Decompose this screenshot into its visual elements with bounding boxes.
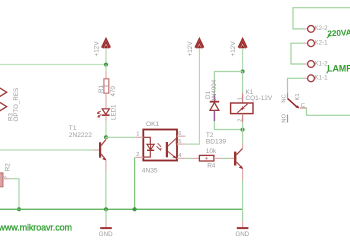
svg-text:2: 2 <box>237 118 243 121</box>
OK1 internal light arrow <box>157 143 161 150</box>
supply +12V P1 <box>102 39 111 49</box>
wire LED1 to T1 collector node <box>105 121 107 137</box>
pin GND left <box>105 222 107 228</box>
svg-text:5: 5 <box>178 139 181 145</box>
wire node to D1 cathode <box>214 72 242 95</box>
wire K1-1 to switch common <box>288 78 304 93</box>
relay contact K1 NC pin <box>287 93 289 98</box>
wire T2 emitter to GND <box>242 181 244 222</box>
node R2/GND rail junction <box>17 207 21 211</box>
annotation LAMP <box>327 64 350 74</box>
svg-text:LAMP: LAMP <box>327 64 350 74</box>
connector K1-2 <box>308 61 315 68</box>
diode D1 <box>210 102 219 111</box>
connector K2-2 <box>308 26 315 33</box>
svg-text:220VAC: 220VAC <box>327 27 350 39</box>
pin relay common <box>300 107 307 109</box>
svg-text:LED1: LED1 <box>111 104 118 120</box>
pin OK1 4 <box>177 157 185 159</box>
svg-text:6: 6 <box>178 131 181 137</box>
svg-text:+12V: +12V <box>230 41 237 57</box>
node T1 emitter / rail junction <box>104 207 108 211</box>
LED1 light arrows <box>97 111 101 117</box>
wire node down to T2 collector <box>242 130 244 144</box>
wire top edge to K2-2 <box>293 8 350 29</box>
wire +12V node to relay coil <box>242 72 244 94</box>
resistor R4 <box>199 155 214 161</box>
svg-text:1N4004: 1N4004 <box>211 79 218 101</box>
pin D1 cathode <box>213 94 215 102</box>
wire OK1 pin2 down to GND rail <box>134 157 136 209</box>
svg-text:10k: 10k <box>206 148 217 155</box>
transistor T1 <box>94 137 107 172</box>
wire common to right edge <box>307 108 350 115</box>
svg-text:R2: R2 <box>4 163 11 171</box>
svg-text:1: 1 <box>136 132 139 138</box>
connector K2-1 <box>308 40 315 47</box>
supply +12V P2 <box>195 39 204 49</box>
LED LED1 <box>102 109 110 115</box>
resistor R1 <box>104 79 109 93</box>
connector K1-1 <box>308 75 315 82</box>
svg-text:www.mikroavr.com: www.mikroavr.com <box>0 222 72 232</box>
wire node to R1 top <box>105 65 107 72</box>
relay contact K1 NO pin <box>287 115 289 123</box>
wire node to OK1 pin1 <box>106 136 135 138</box>
wire T1 base to left edge <box>0 149 94 151</box>
svg-text:K1-1: K1-1 <box>315 75 329 82</box>
svg-text:BD139: BD139 <box>206 138 226 145</box>
node OK1 pin2 / rail junction <box>133 207 137 211</box>
svg-text:CQ1-12V: CQ1-12V <box>246 95 273 102</box>
svg-text:R1: R1 <box>98 85 105 93</box>
OK1 internal phototransistor <box>166 138 177 158</box>
wire R4 to T2 base <box>222 157 230 159</box>
resistor R2 (clipped at left edge) <box>0 173 3 187</box>
svg-text:NC: NC <box>281 94 287 102</box>
svg-text:4N35: 4N35 <box>142 168 158 175</box>
svg-text:470: 470 <box>110 86 117 97</box>
pin K1-1 <box>304 77 308 79</box>
wire GND rail <box>0 208 243 210</box>
node +12V / D1 / K1 junction <box>241 70 245 74</box>
pin K2-2 <box>304 28 308 30</box>
pin D1 anode <box>213 110 215 121</box>
wire K2-1 to K1-2 <box>291 43 304 64</box>
relay contact K1 lever <box>288 98 298 107</box>
wire +12V P1 down to node <box>105 49 107 65</box>
pin R2 <box>3 178 10 180</box>
svg-text:R4: R4 <box>207 163 216 170</box>
wire D1 anode to T2 collector node <box>214 121 242 130</box>
wire +12V P2 to OK1 pin5 <box>185 49 199 145</box>
svg-text:GND: GND <box>99 231 113 238</box>
relay coil K1 <box>231 103 253 114</box>
pin K1-2 <box>304 63 308 65</box>
pin K1 coil 2 <box>242 114 244 122</box>
supply +12V P3 <box>238 39 247 49</box>
wire OK1 pin4 to R4 <box>185 157 192 159</box>
svg-text:K1: K1 <box>295 93 301 100</box>
pin R4 left <box>192 157 199 159</box>
svg-text:2N2222: 2N2222 <box>69 132 92 139</box>
photoresistor R3 light arrows <box>0 88 7 111</box>
svg-text:2: 2 <box>136 152 139 158</box>
pin R1 top <box>105 72 107 79</box>
pin K2-1 <box>304 42 308 44</box>
pin GND right <box>242 222 244 228</box>
node junction at +12V column <box>104 63 108 67</box>
svg-text:1: 1 <box>237 97 243 100</box>
pin LED1 cathode <box>105 116 107 121</box>
node D1/K1 pin2/T2 collector <box>241 128 245 132</box>
pin OK1 5 <box>177 143 185 145</box>
wire R2 to GND rail <box>10 179 20 210</box>
wire rail to GND symbol <box>105 209 107 221</box>
OK1 internal LED <box>143 137 154 157</box>
wire coil pin2 to node <box>242 122 244 130</box>
svg-text:K2-1: K2-1 <box>315 40 329 47</box>
pin OK1 1 <box>135 136 143 138</box>
pin OK1 2 <box>135 156 143 158</box>
transistor T2 <box>229 144 243 181</box>
annotation 220VAC <box>327 27 350 39</box>
svg-text:+12V: +12V <box>187 41 194 57</box>
svg-text:NO: NO <box>281 114 287 123</box>
optocoupler OK1 box <box>143 130 177 161</box>
svg-text:GND: GND <box>235 231 249 238</box>
pin OK1 6 <box>177 135 185 137</box>
svg-text:+12V: +12V <box>94 41 101 57</box>
node T1 collector junction <box>104 135 108 139</box>
wire T1 emitter down to GND rail <box>105 172 107 209</box>
svg-text:K2-2: K2-2 <box>315 25 329 32</box>
svg-text:OK1: OK1 <box>146 121 160 128</box>
svg-text:OPTO_RES: OPTO_RES <box>13 88 20 122</box>
pin K1 coil 1 <box>242 93 244 103</box>
ground symbol left <box>100 227 112 229</box>
ground symbol right <box>237 227 249 229</box>
pin R4 right <box>214 157 222 159</box>
svg-text:K1-2: K1-2 <box>315 60 329 67</box>
wire +12V P3 down <box>242 49 244 72</box>
pin R1 bottom / LED1 anode <box>105 93 107 109</box>
wire +12V rail to R3 (top left horizontal) <box>0 64 106 66</box>
